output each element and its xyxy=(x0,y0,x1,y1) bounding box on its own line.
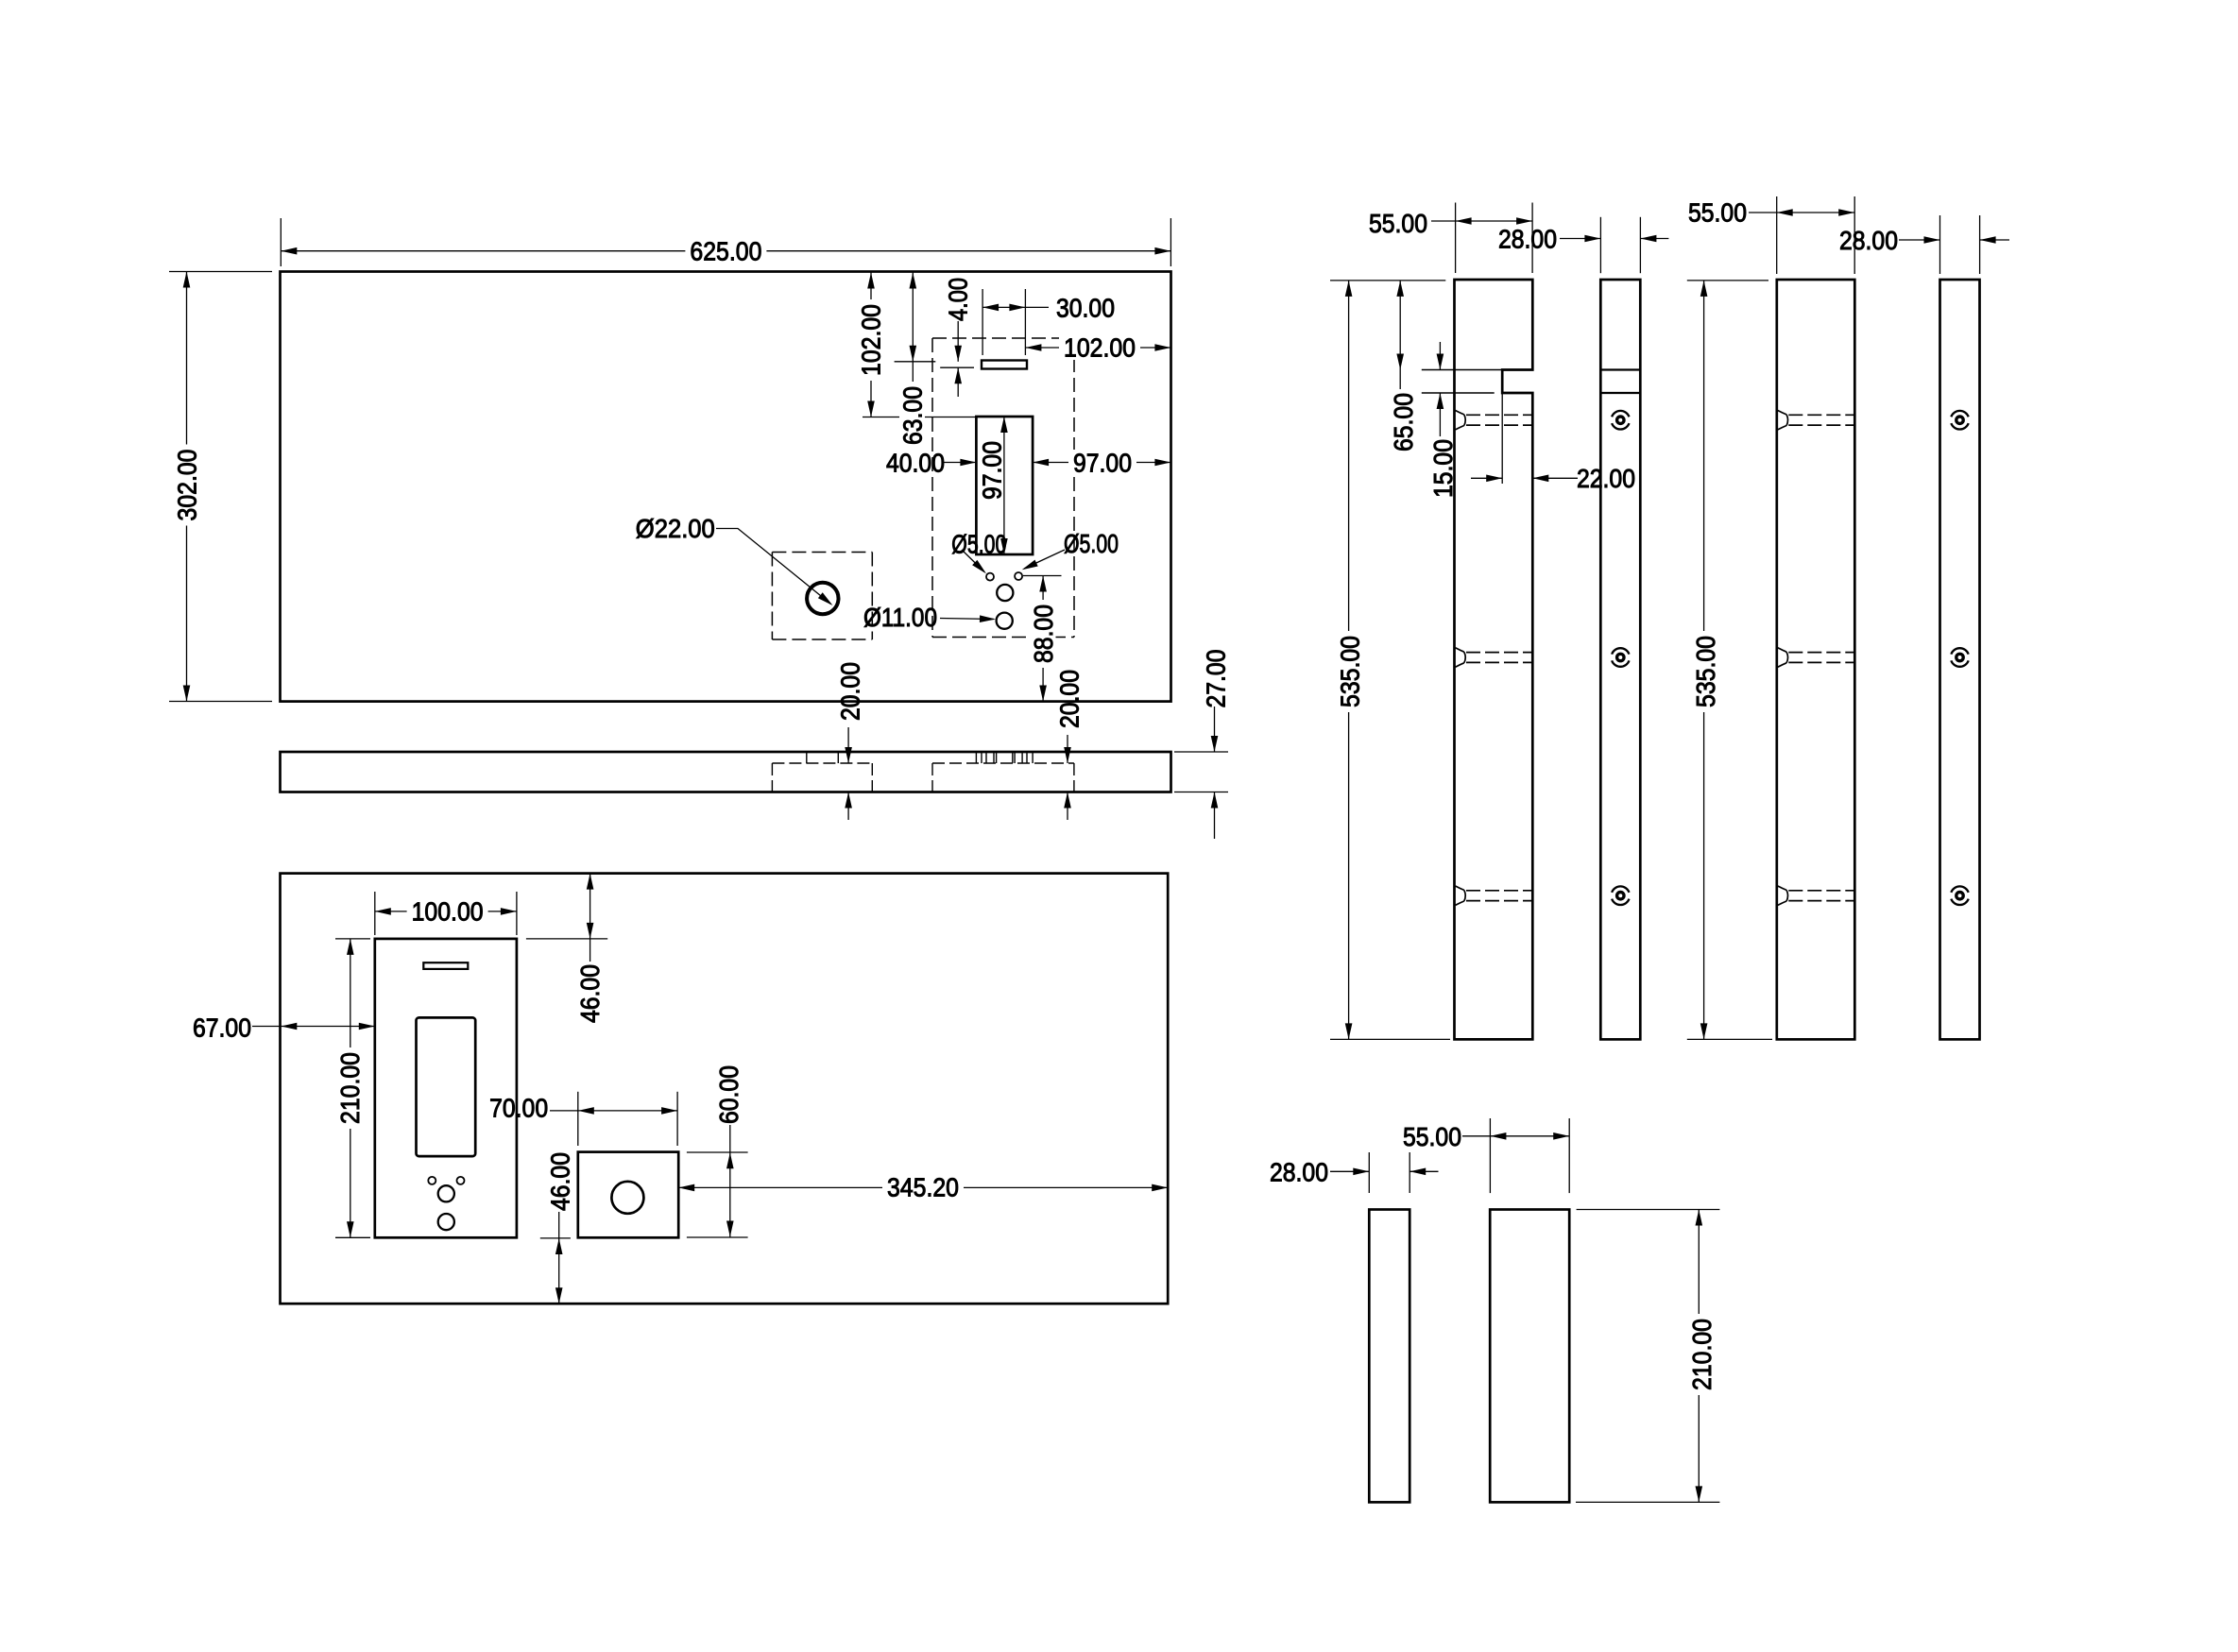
hole D5 left xyxy=(986,573,994,581)
dim 63.00 vertical (top edge to slot) xyxy=(895,361,936,363)
dim 60.00 xyxy=(729,1125,731,1237)
hole D5 right bottom view xyxy=(457,1177,465,1184)
dim 28.00 rail A xyxy=(1560,238,1600,240)
svg-text:67.00: 67.00 xyxy=(193,1013,251,1043)
svg-text:70.00: 70.00 xyxy=(489,1094,548,1123)
dim 535.00 rail A xyxy=(1348,281,1350,1040)
dim 28.00 hinge plate xyxy=(1330,1170,1369,1172)
hole D22 in lock block xyxy=(611,1182,643,1214)
dim 97.00 vertical cutout height xyxy=(1003,417,1005,554)
dim 22.00 xyxy=(1471,477,1502,479)
svg-text:65.00: 65.00 xyxy=(1389,393,1418,451)
hole D11 lower xyxy=(997,613,1013,629)
dim 55.00 rail B extension lines xyxy=(1776,196,1778,274)
dim 65.00 rebate position xyxy=(1399,281,1401,370)
svg-text:15.00: 15.00 xyxy=(1428,439,1458,498)
dim 535.00 rail A extension lines xyxy=(1330,280,1445,281)
hole D11 upper bottom view xyxy=(438,1185,454,1201)
dim 88.00 extension line xyxy=(1023,575,1062,577)
hidden pocket right (hinge recess) in side view xyxy=(932,762,1074,764)
svg-text:97.00: 97.00 xyxy=(1073,449,1132,478)
panel bottom view outline xyxy=(281,874,1169,1304)
hole D5 left bottom view xyxy=(428,1177,436,1184)
svg-text:60.00: 60.00 xyxy=(714,1065,743,1124)
svg-text:535.00: 535.00 xyxy=(1336,636,1365,707)
dowel holes rail A xyxy=(1456,411,1466,430)
dashed square recess for D22 xyxy=(772,552,872,554)
dashed recess outline (pocket for hinge plate) xyxy=(932,337,1074,339)
dim 4.00 slot height xyxy=(940,366,974,368)
dim 302.00 xyxy=(186,272,188,702)
svg-text:28.00: 28.00 xyxy=(1270,1157,1328,1186)
rail B side view 55 wide xyxy=(1777,280,1855,1039)
svg-text:625.00: 625.00 xyxy=(690,237,761,266)
svg-text:30.00: 30.00 xyxy=(1056,294,1115,323)
cutout 40x97 in hinge plate xyxy=(417,1017,476,1156)
dim 55.00 rail A extension lines xyxy=(1455,203,1457,274)
dim 345.20 xyxy=(678,1186,1168,1188)
rail B edge view 28 wide xyxy=(1940,280,1980,1039)
svg-text:88.00: 88.00 xyxy=(1029,605,1058,663)
svg-text:22.00: 22.00 xyxy=(1577,464,1635,493)
dim 27.00 xyxy=(1214,707,1216,752)
dim 102.00 vertical (top edge to cutout top) xyxy=(863,417,976,418)
svg-text:102.00: 102.00 xyxy=(857,304,886,376)
dim 97.00 horizontal (cutout to right edge) xyxy=(1033,462,1170,464)
svg-text:55.00: 55.00 xyxy=(1403,1122,1461,1151)
panel top view outline 625x302 xyxy=(281,272,1171,702)
svg-text:345.20: 345.20 xyxy=(887,1173,959,1202)
dim 210.00 xyxy=(350,939,351,1237)
rectangular cutout 40x97 xyxy=(976,417,1033,554)
svg-text:Ø22.00: Ø22.00 xyxy=(636,514,715,543)
hinge plate face view 55 wide xyxy=(1490,1210,1569,1503)
svg-text:302.00: 302.00 xyxy=(173,450,202,521)
dim 28.00 rail B xyxy=(1899,239,1940,241)
dim 625.00 extension lines xyxy=(280,218,282,266)
dim 20.00 right pocket depth xyxy=(1067,735,1068,763)
screw holes rail A edge view xyxy=(1612,411,1629,430)
dim 28.00 rail B extension lines xyxy=(1939,215,1941,274)
dim 210.00 xyxy=(1698,1210,1700,1503)
dim 28.00 hinge plate extension lines xyxy=(1368,1152,1370,1193)
hidden pocket left (D22 recess) in side view xyxy=(772,762,872,764)
hole D22 xyxy=(807,583,838,614)
svg-text:20.00: 20.00 xyxy=(1055,670,1085,728)
label D5.00 left leader xyxy=(962,550,984,572)
dim 535.00 rail B extension lines xyxy=(1687,280,1768,281)
svg-text:46.00: 46.00 xyxy=(546,1152,575,1211)
svg-text:40.00: 40.00 xyxy=(886,449,945,478)
dim 67.00 xyxy=(252,1026,375,1028)
dim 40.00 cutout width leader xyxy=(944,462,976,464)
svg-text:27.00: 27.00 xyxy=(1202,650,1231,708)
dim 55.00 rail A xyxy=(1431,220,1532,222)
dim 28.00 rail A extension lines xyxy=(1599,217,1601,273)
svg-text:63.00: 63.00 xyxy=(898,386,928,445)
hole D11 lower bottom view xyxy=(438,1214,454,1230)
svg-text:Ø5.00: Ø5.00 xyxy=(951,530,1006,559)
dim 46.00 bottom xyxy=(558,1212,560,1303)
slot 30x4 xyxy=(982,361,1027,369)
label D11.00 leader xyxy=(940,619,994,620)
svg-text:210.00: 210.00 xyxy=(1687,1319,1717,1390)
dowel holes rail B xyxy=(1778,411,1788,430)
dim 15.00 rebate height xyxy=(1439,342,1441,370)
svg-text:535.00: 535.00 xyxy=(1691,636,1720,707)
dim 88.00 xyxy=(1042,576,1044,702)
dim 27.00 thickness extension lines xyxy=(1174,751,1228,753)
rebate joint line rail A xyxy=(1422,369,1502,371)
slot 30x4 in hinge plate xyxy=(423,962,468,969)
dim 535.00 rail B xyxy=(1703,281,1705,1040)
lock block outline 70x60 xyxy=(578,1152,678,1238)
svg-text:28.00: 28.00 xyxy=(1839,226,1898,255)
hidden feature edges in side view xyxy=(975,752,977,763)
dim 100.00 xyxy=(375,911,517,912)
dim 210.00 extension lines xyxy=(1577,1209,1720,1211)
dim 210.00 extension lines xyxy=(335,938,370,940)
dim 22.00 rebate depth extension line xyxy=(1501,393,1503,484)
dim 55.00 hinge plate extension lines xyxy=(1489,1118,1491,1193)
rebate lines rail A edge view xyxy=(1600,368,1640,370)
dim 30.00 xyxy=(982,306,1025,308)
dim 70.00 extension lines xyxy=(577,1092,579,1146)
svg-text:97.00: 97.00 xyxy=(978,441,1007,500)
hinge plate outline 100x210 xyxy=(375,939,517,1237)
dim 46.00 top extension line xyxy=(526,938,607,940)
dim 625.00 xyxy=(281,250,1170,252)
dim 302.00 extension lines xyxy=(169,271,272,273)
dim 55.00 hinge plate xyxy=(1462,1135,1569,1137)
rail A edge view 28 wide xyxy=(1600,280,1640,1039)
svg-text:Ø11.00: Ø11.00 xyxy=(863,603,937,632)
svg-text:210.00: 210.00 xyxy=(335,1052,365,1124)
svg-text:46.00: 46.00 xyxy=(575,964,605,1023)
label D5.00 right leader xyxy=(1024,550,1065,569)
dim 102.00 horizontal (slot to right edge) xyxy=(1025,347,1170,349)
label D22.00 leader xyxy=(716,529,831,605)
dim 20.00 left pocket depth xyxy=(847,727,849,763)
svg-text:55.00: 55.00 xyxy=(1688,198,1747,228)
hidden hole edges D22 in side view xyxy=(806,752,808,763)
hole D5 right xyxy=(1015,572,1022,580)
panel side view outline xyxy=(281,752,1171,792)
dim 55.00 rail B xyxy=(1749,212,1854,213)
dim 46.00 top xyxy=(589,874,591,939)
dim 60.00 extension lines xyxy=(687,1151,748,1153)
hinge plate edge view 28 wide xyxy=(1369,1210,1409,1503)
rail A side view 55 wide with rebate xyxy=(1455,280,1533,1039)
svg-text:55.00: 55.00 xyxy=(1369,209,1427,238)
svg-text:Ø5.00: Ø5.00 xyxy=(1064,529,1119,558)
svg-text:20.00: 20.00 xyxy=(836,662,865,721)
dim 70.00 xyxy=(550,1110,677,1112)
screw holes rail B edge view xyxy=(1951,411,1968,430)
svg-text:100.00: 100.00 xyxy=(412,897,484,927)
hole D11 upper xyxy=(997,585,1013,601)
svg-text:102.00: 102.00 xyxy=(1064,333,1136,363)
svg-text:28.00: 28.00 xyxy=(1498,225,1557,254)
dim 46.00 bottom extension line xyxy=(540,1237,571,1239)
dim 30.00 slot width extension lines xyxy=(982,289,983,355)
dim 100.00 extension lines xyxy=(374,892,376,935)
svg-text:4.00: 4.00 xyxy=(944,278,973,321)
